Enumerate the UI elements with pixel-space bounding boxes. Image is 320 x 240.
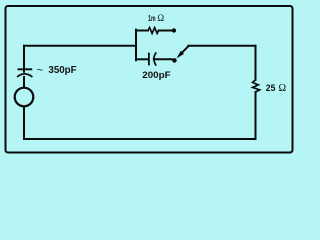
wire bottom horizontal <box>24 138 256 140</box>
wire left vertical (top) <box>23 46 25 70</box>
wire right vertical (below resistor) <box>255 92 257 139</box>
svg-text:1m: 1m <box>148 13 156 23</box>
svg-text:~: ~ <box>37 64 43 76</box>
resistor R2 25Ω (vertical zigzag, right side) <box>253 80 260 92</box>
resistor R1 1mΩ (horizontal zigzag, top branch) <box>148 28 159 34</box>
wire left vertical (below capacitor) <box>23 77 25 88</box>
switch S1 arm <box>180 46 189 55</box>
border frame <box>6 6 293 153</box>
capacitor C2 200pF (flat plate) <box>148 53 150 66</box>
wire right vertical (above resistor) <box>255 46 257 80</box>
wire top branch left <box>136 30 148 32</box>
wire top-right horizontal <box>188 45 255 47</box>
capacitor C1 350pF (curved plate) <box>17 74 32 77</box>
svg-text:200pF: 200pF <box>142 70 170 81</box>
node bar left junction <box>135 30 137 61</box>
capacitor C1 350pF (flat plate) <box>18 68 33 70</box>
source G1 (circle) <box>15 88 34 107</box>
svg-text:Ω: Ω <box>279 83 287 94</box>
svg-text:Ω: Ω <box>157 13 164 23</box>
wire bottom branch right <box>154 58 172 60</box>
capacitor C1 350pF (stub) <box>23 69 25 73</box>
svg-text:25: 25 <box>266 83 276 93</box>
node contact dot (top, resistor side) <box>172 28 176 32</box>
wire bottom branch left <box>136 58 148 60</box>
node contact dot (bottom, capacitor side) <box>172 58 177 63</box>
wire top-left horizontal <box>24 45 136 47</box>
switch S1 arrowhead <box>177 51 185 59</box>
capacitor C2 200pF (curved plate) <box>154 52 156 65</box>
wire left vertical (below source) <box>23 106 25 139</box>
wire top branch right <box>159 30 172 32</box>
svg-text:350pF: 350pF <box>48 65 76 76</box>
